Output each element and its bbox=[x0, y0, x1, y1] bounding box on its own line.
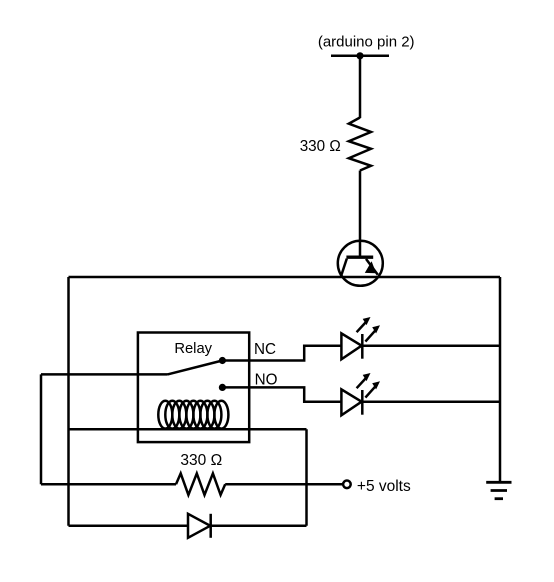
wire coil-right vertical bbox=[305, 429, 308, 526]
wire LED D1 to right rail bbox=[362, 344, 500, 347]
transistor Q1 collector lead bbox=[341, 259, 347, 277]
LED D2 anode triangle bbox=[341, 389, 361, 415]
terminal bar arduino pin 2 bbox=[331, 55, 389, 58]
LED D2 bbox=[341, 373, 380, 415]
transistor Q1 base bar bbox=[346, 256, 373, 259]
switch blade bbox=[168, 361, 223, 375]
ground bar 3 bbox=[495, 497, 503, 500]
LED D1 light arrow 2 bbox=[365, 330, 376, 342]
svg-text:330 Ω: 330 Ω bbox=[180, 452, 222, 469]
svg-text:Relay: Relay bbox=[174, 341, 212, 357]
wire collector-emitter rail bbox=[69, 276, 501, 279]
wire diode left lead bbox=[69, 525, 189, 528]
wire right vertical rail bbox=[499, 277, 502, 481]
ground bar 1 bbox=[486, 481, 511, 484]
coil L1 relay coil bbox=[158, 401, 228, 429]
transistor Q1 emitter arrow bbox=[365, 261, 376, 273]
resistor R2 bbox=[176, 473, 225, 495]
wire diode right lead bbox=[211, 525, 307, 528]
svg-text:(arduino pin 2): (arduino pin 2) bbox=[318, 34, 415, 51]
LED D1 light arrow 1 bbox=[357, 321, 367, 332]
wire coil rail bbox=[69, 428, 307, 431]
wire R1 to transistor base bbox=[359, 171, 362, 257]
diode D3 flyback bbox=[188, 514, 211, 538]
node NO dot bbox=[219, 384, 226, 391]
wire R2 left lead bbox=[41, 483, 176, 486]
wire R2 to +5V terminal bbox=[225, 483, 343, 486]
LED D1 bbox=[341, 317, 380, 359]
svg-text:+5 volts: +5 volts bbox=[357, 478, 411, 495]
wire arduino pin to R1 bbox=[359, 56, 362, 118]
svg-text:NC: NC bbox=[254, 341, 276, 358]
transistor Q1 body circle bbox=[338, 241, 383, 286]
terminal +5 volts circle bbox=[343, 481, 351, 489]
ground bar 2 bbox=[491, 489, 507, 492]
wire NO to LED D2 bbox=[222, 387, 341, 401]
transistor Q1 bbox=[338, 241, 383, 286]
resistor R1 bbox=[349, 118, 371, 171]
wire NC to LED D1 bbox=[222, 346, 341, 361]
svg-text:NO: NO bbox=[255, 371, 278, 388]
LED D1 anode triangle bbox=[341, 333, 361, 359]
coil L1 loops bbox=[158, 401, 172, 429]
LED D1 cathode bar bbox=[361, 334, 364, 359]
diode D3 cathode bar bbox=[209, 514, 212, 538]
wire left vertical (outer) bbox=[67, 277, 70, 526]
LED D2 light arrow 2 bbox=[365, 386, 376, 398]
relay K1 box bbox=[138, 333, 249, 443]
wire switch-common left vertical bbox=[40, 374, 43, 484]
svg-text:330 Ω: 330 Ω bbox=[300, 138, 341, 155]
junction dot arduino pin 2 bbox=[356, 52, 363, 59]
node NC dot bbox=[219, 357, 226, 364]
wire LED D2 to right rail bbox=[362, 400, 500, 403]
LED D2 light arrow 1 bbox=[357, 377, 367, 388]
ground bbox=[486, 482, 511, 498]
wire switch common bbox=[41, 373, 168, 376]
LED D2 cathode bar bbox=[361, 390, 364, 415]
transistor Q1 emitter lead bbox=[366, 259, 378, 275]
diode D3 anode triangle bbox=[188, 514, 210, 538]
